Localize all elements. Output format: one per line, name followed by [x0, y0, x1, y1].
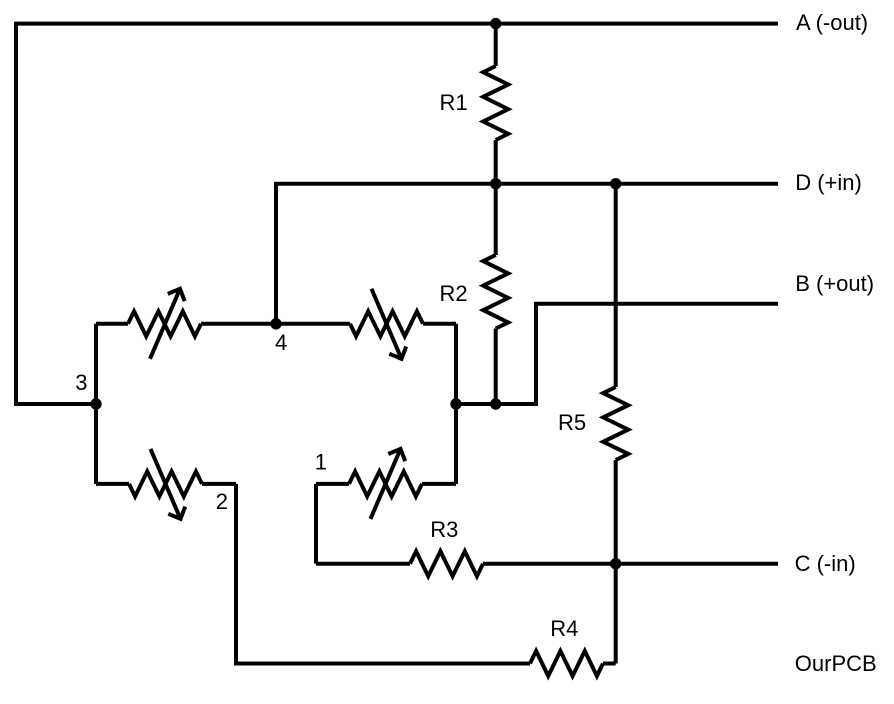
svg-text:R5: R5 [558, 410, 586, 435]
wire: bridge right vertical to node row [454, 324, 458, 484]
svg-text:2: 2 [216, 489, 228, 514]
potentiometer body, node 3 to node 2 [129, 471, 202, 496]
junction dot: node row / bridge right vertical [450, 398, 461, 409]
resistor R3 (horizontal zigzag on net C) [410, 551, 483, 576]
junction dot: node 3 [90, 398, 101, 409]
junction dot: net D / R5 column [610, 178, 621, 189]
wire net B: rail with drop to node row [456, 304, 778, 404]
resistor R1 (vertical zigzag) [483, 66, 508, 140]
wire net D: rail with drop to node 4 [276, 184, 778, 324]
svg-text:B (+out): B (+out) [795, 271, 874, 296]
svg-text:4: 4 [275, 330, 287, 355]
wire: pot 1 row [316, 482, 456, 486]
svg-text:D (+in): D (+in) [795, 170, 862, 195]
resistor R5 (vertical zigzag) [603, 387, 628, 460]
svg-text:R1: R1 [440, 90, 468, 115]
resistor R4 (horizontal zigzag on bottom run) [530, 651, 603, 676]
wire: R1/R2 vertical column at x=496 [494, 24, 498, 404]
potentiometer arrow (up-right), node 1 branch [371, 449, 406, 519]
junction dot: net C / R5-R4 column [610, 558, 621, 569]
wire: node 2 drop and bottom R4 run [236, 484, 530, 664]
junction dot: node row / R2 bottom [490, 398, 501, 409]
svg-text:3: 3 [75, 370, 87, 395]
wire: R5/R4 vertical column at x=616 [614, 184, 618, 664]
junction dot: net A / R1 top [490, 18, 501, 29]
potentiometer arrow (down-right), node 3 to node 2 [151, 449, 186, 519]
wire net A: top rail, left rail and stub to node 3 [16, 24, 778, 404]
potentiometer body, node 4 to right branch [350, 311, 423, 336]
wire: bottom-left pot row [96, 482, 236, 486]
potentiometer arrow (down-right), node 4 to right branch [372, 289, 407, 359]
svg-text:A (-out): A (-out) [796, 10, 868, 35]
potentiometer body, node 3 to node 4 [128, 311, 201, 336]
potentiometer body, node 1 branch [349, 471, 422, 496]
svg-text:C (-in): C (-in) [795, 551, 856, 576]
wire: bridge left vertical at node 3 [94, 324, 98, 484]
wire net C: rail with R3 leads [316, 562, 778, 566]
svg-text:R3: R3 [430, 517, 458, 542]
svg-text:1: 1 [315, 450, 327, 475]
junction dot: net D / R1-R2 column [490, 178, 501, 189]
resistor R2 (vertical zigzag) [483, 255, 508, 329]
wire: pot 1 left lead drop to net C [314, 484, 318, 564]
wire: R4 right lead [603, 662, 616, 666]
wire: top pot row [96, 322, 456, 326]
svg-text:R4: R4 [550, 616, 578, 641]
junction dot: node 4 [270, 318, 281, 329]
svg-text:R2: R2 [440, 281, 468, 306]
svg-text:OurPCB: OurPCB [795, 651, 877, 676]
potentiometer arrow (up-right), node 3 to node 4 [150, 289, 185, 359]
